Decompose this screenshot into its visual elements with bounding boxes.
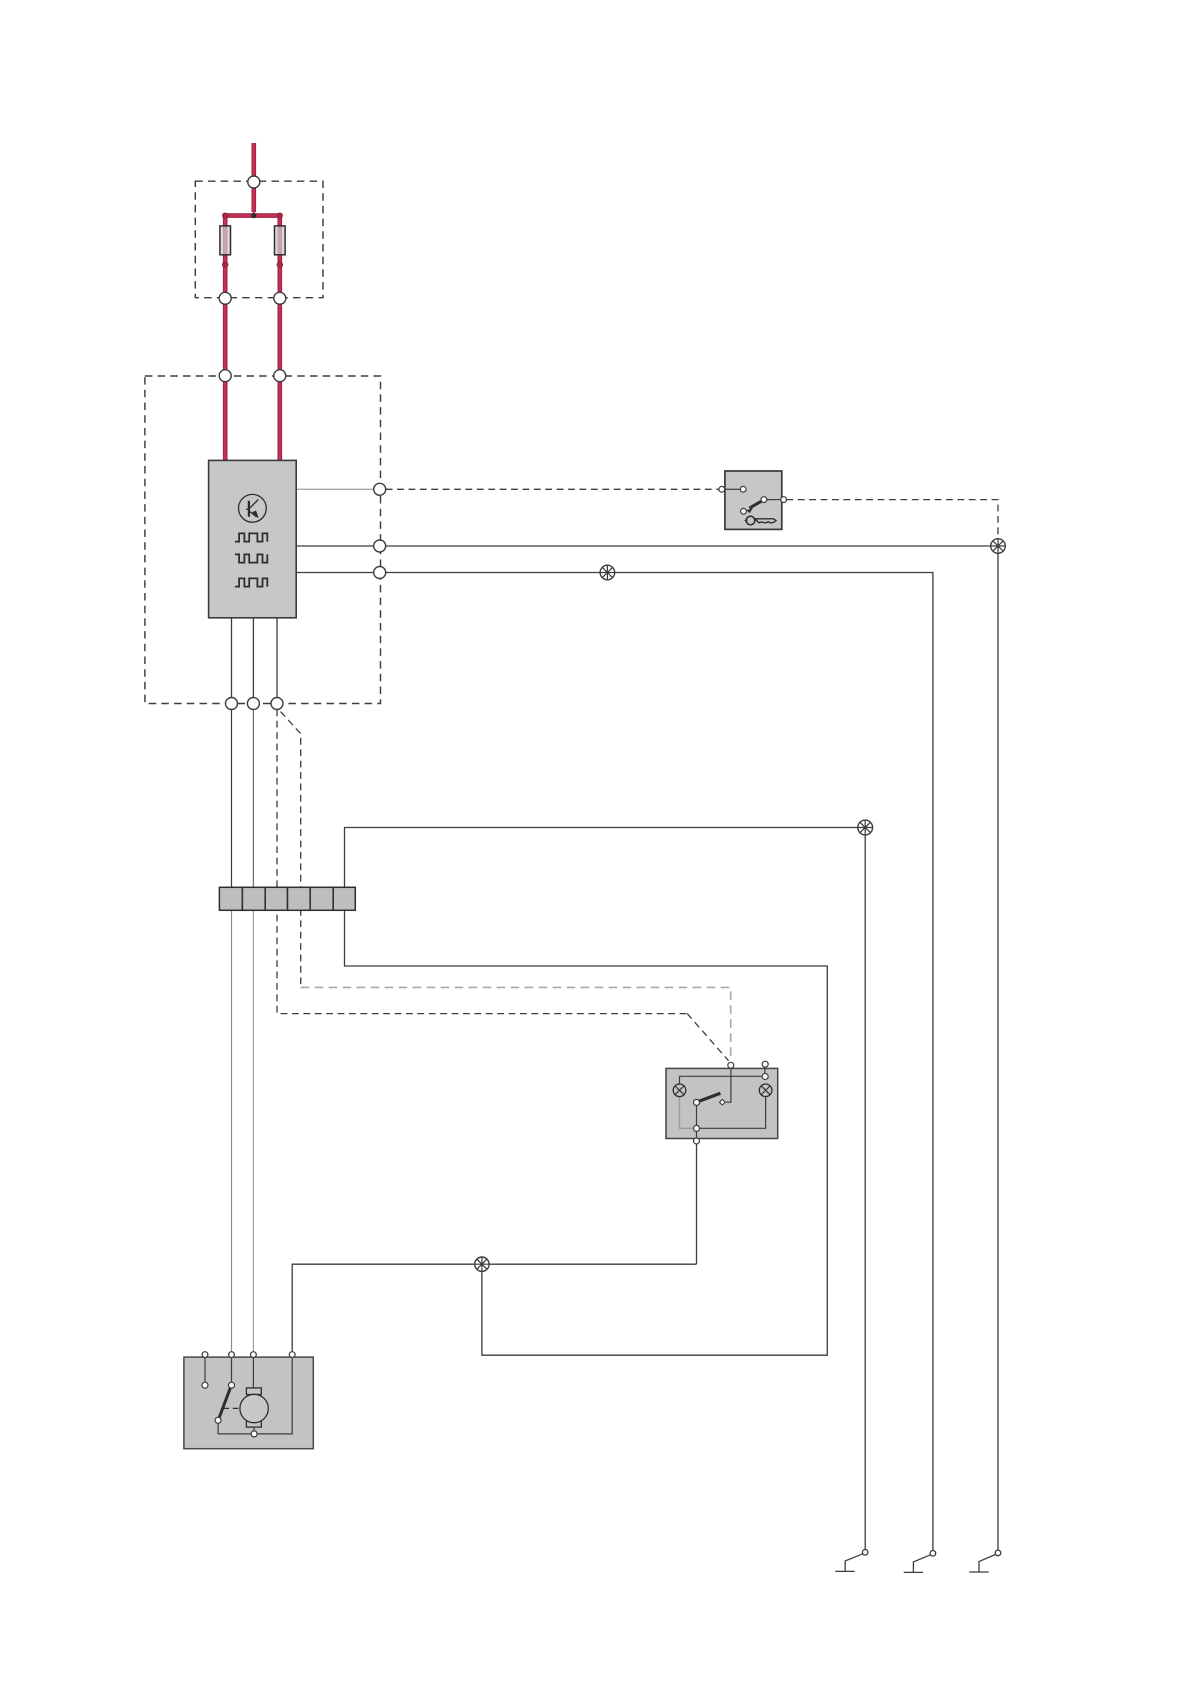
wire: pin C run to right then down to ground G2 xyxy=(296,573,933,1551)
splice S2 (wheel symbol) xyxy=(600,565,615,580)
terminal circle: module pin C xyxy=(374,567,386,579)
SW2 top terminal circle xyxy=(728,1062,734,1068)
SW1 input stub wire xyxy=(725,488,740,490)
M1 mechanical link dash xyxy=(224,1407,241,1409)
ground G3 xyxy=(969,1550,1001,1572)
terminal circle: module bottom pin 1 xyxy=(226,698,238,710)
transistor symbol inside U1 xyxy=(239,494,267,522)
wire: splice S3 down to ground G3 xyxy=(997,553,999,1550)
solder dot left of bus xyxy=(223,213,228,218)
junction dot on supply bus xyxy=(251,213,256,218)
red branch wire right (through fuse to connector) xyxy=(277,214,282,461)
M1 park switch contact circle xyxy=(215,1417,221,1423)
SW2 switch arm xyxy=(699,1093,721,1101)
M1 terminal circle 3 xyxy=(251,1352,257,1358)
red wire highlight core xyxy=(225,143,281,460)
SW2 illumination lamp right xyxy=(759,1084,772,1097)
terminal circle: module pin B xyxy=(374,540,386,552)
terminal circle: battery feed into fuse box xyxy=(248,176,260,188)
wire: grey run cell 2 down to motor terminal 3 xyxy=(252,910,254,1351)
M1 armature feed wire from terminal 3 xyxy=(252,1358,254,1389)
battery feed wire (red, 30A supply) xyxy=(252,143,257,212)
SW1 contact circle upper right xyxy=(761,497,767,503)
SW2 right upper terminal circle xyxy=(762,1061,768,1067)
wire: grey run cell 1 down to motor relay terminal 2 xyxy=(231,910,233,1351)
M1 terminal circle 1 xyxy=(202,1352,208,1358)
M1 motor bottom junction circle xyxy=(251,1431,257,1437)
terminal circle: fuse box out right xyxy=(274,292,286,304)
M1 brush block top rectangle xyxy=(246,1388,261,1395)
wire: switch output down to junction row xyxy=(696,1144,698,1264)
solder dot right of bus xyxy=(277,213,282,218)
wire: junction row to motor terminal 4 xyxy=(292,1264,696,1351)
wire: dashed from ignition switch to splice S3 xyxy=(786,500,998,539)
ground G1 xyxy=(835,1550,868,1572)
M1 motor bottom stub xyxy=(253,1427,255,1431)
terminal circle: module in right xyxy=(274,370,286,382)
M1 terminal 1 stub wire xyxy=(204,1358,206,1382)
fuse box dashed outline xyxy=(195,181,323,298)
M1 terminal circle 2 xyxy=(229,1352,235,1358)
splice S3 (wheel symbol) xyxy=(991,539,1006,554)
splice dot below fuse F1 xyxy=(223,262,228,267)
wire: dashed branch from pin 3 via cell 4 (dark part) xyxy=(281,712,301,987)
SW2 inner bottom bus wire xyxy=(700,1097,766,1128)
red branch wire left (through fuse to connector) xyxy=(223,214,228,461)
SW2 inner top bus wire xyxy=(680,1076,763,1084)
terminal circle: module in left xyxy=(219,370,231,382)
SW1 contact circle lower xyxy=(741,508,747,514)
splice S1 (wheel symbol) xyxy=(858,820,873,835)
SW1 switch arm with arrowhead xyxy=(750,501,762,508)
SW1 contact circle (30) xyxy=(740,486,746,492)
M1 terminal circle 4 xyxy=(289,1352,295,1358)
wire: control unit pin 3 down to connector row xyxy=(276,618,278,698)
SW2 pivot to bottom bus wire xyxy=(696,1105,698,1138)
terminal circle: fuse box out left xyxy=(219,292,231,304)
SW1 output stub wire xyxy=(767,499,781,501)
ground G2 xyxy=(904,1551,936,1573)
M1 terminal 2 stub wire xyxy=(231,1358,233,1382)
ignition switch SW1 box xyxy=(725,471,782,529)
pulse waveform symbol 3 inside U1 xyxy=(235,578,267,586)
splice S4 (wheel symbol) xyxy=(475,1257,489,1271)
wire: cell 6 up then right to splice S1 xyxy=(345,828,859,889)
M1 bottom wire to terminal 4 xyxy=(257,1358,292,1434)
pulse waveform symbol 2 inside U1 xyxy=(235,554,267,562)
terminal circle: module bottom pin 2 xyxy=(247,698,259,710)
SW2 bottom terminal circle xyxy=(694,1138,700,1144)
terminal circle: module bottom pin 3 xyxy=(271,698,283,710)
wire: dashed diagonal into switch terminal xyxy=(687,1014,728,1061)
wire: connector pin 1 down to in-line connector cell 1 xyxy=(231,709,233,888)
terminal circle: module pin A xyxy=(374,483,386,495)
SW1 terminal circle at right edge xyxy=(781,497,787,503)
wire: splice S1 down to ground G1 xyxy=(864,835,866,1550)
heater switch SW2 box xyxy=(666,1068,778,1138)
wire: grey dashed run to switch terminal xyxy=(301,987,731,1060)
key symbol inside SW1 xyxy=(745,516,776,525)
SW2 right inner terminal circle xyxy=(762,1074,768,1080)
wire: control unit pin 2 down to connector row xyxy=(252,618,254,698)
splice dot below fuse F2 xyxy=(277,262,282,267)
SW2 arm pivot circle xyxy=(694,1099,700,1105)
red supply T-bus wire xyxy=(223,213,282,218)
M1 motor armature circle xyxy=(240,1394,268,1422)
M1 bottom link wire xyxy=(218,1423,251,1434)
SW2 right terminal link wire xyxy=(764,1067,766,1073)
pulse waveform symbol 1 inside U1 xyxy=(235,533,267,541)
wire: cell 6 down, right, down, left, up to splice S4 xyxy=(345,910,828,1355)
M1 park switch arm xyxy=(219,1388,230,1418)
SW2 left lamp ground wire (grey) xyxy=(680,1097,694,1129)
M1 park contact circle (dead end) xyxy=(202,1382,208,1388)
in-line connector strip (6-way) xyxy=(219,887,355,910)
SW2 fixed contact diamond xyxy=(719,1099,725,1105)
control unit U1 (wiper interval relay) xyxy=(209,460,297,617)
wire: dashed run connector A to ignition switch xyxy=(386,488,719,490)
M1 park switch pivot circle xyxy=(229,1382,235,1388)
SW2 illumination lamp left xyxy=(673,1084,686,1097)
wire: dashed run pin 3 straight down through cell 3 then right to switch xyxy=(277,709,687,1013)
fuse F1 (left) xyxy=(220,226,231,255)
wire: connector pin 2 down to in-line connector cell 2 xyxy=(252,709,254,888)
windscreen wiper motor M1 box xyxy=(184,1357,313,1449)
SW1 terminal circle at left edge xyxy=(719,486,725,492)
SW2 junction circle on bottom bus xyxy=(694,1125,700,1131)
M1 brush block bottom rectangle xyxy=(246,1421,261,1427)
wire: pin A to connector (grey) xyxy=(296,488,373,490)
SW2 feed wire from top terminal xyxy=(726,1068,731,1102)
wire: control unit pin 1 down to connector row xyxy=(231,618,233,698)
wire: pin B to splice (dark) xyxy=(296,545,991,547)
control module dashed outline xyxy=(145,376,381,704)
fuse F2 (right) xyxy=(275,226,286,255)
